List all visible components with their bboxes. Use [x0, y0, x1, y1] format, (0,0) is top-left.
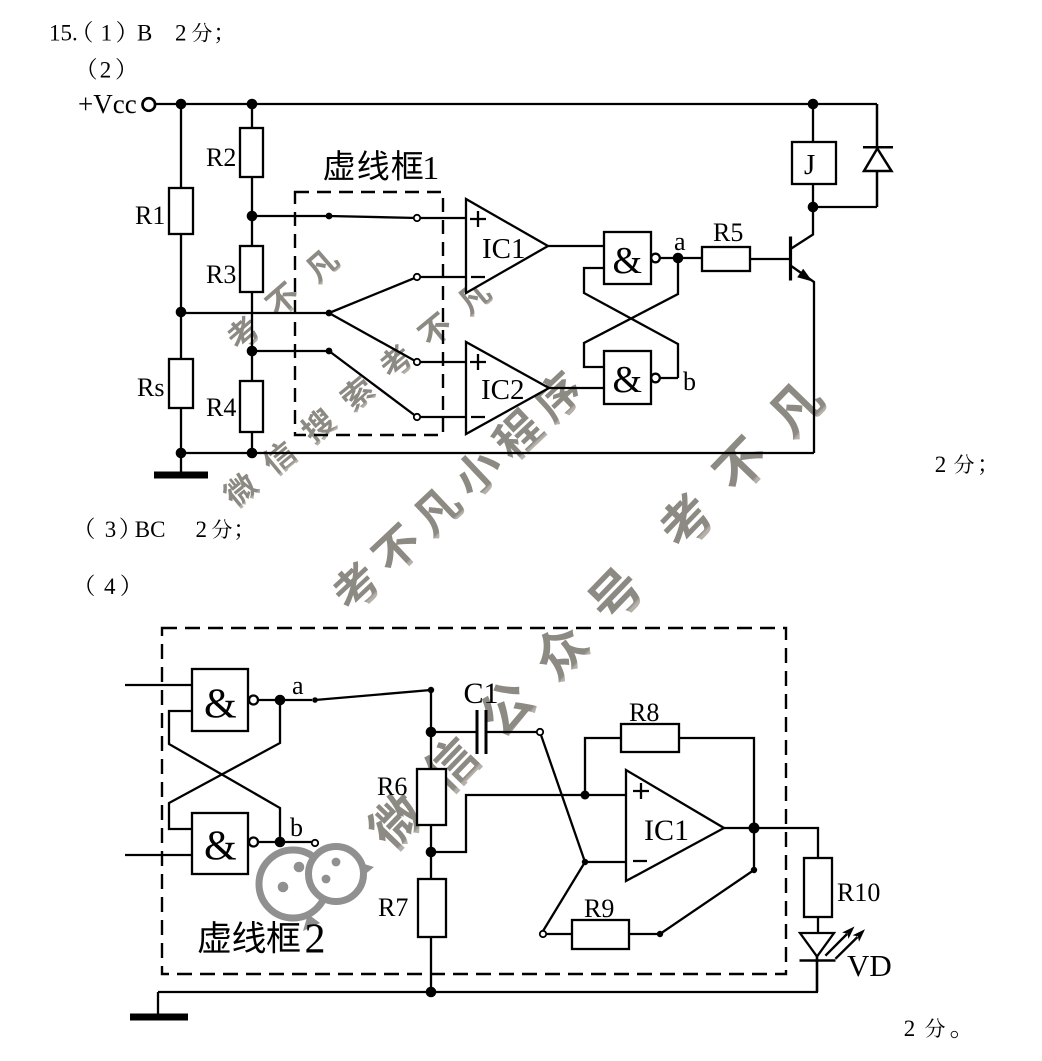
answer line (3): [87, 517, 240, 542]
wire bottom rail: [181, 452, 814, 454]
junction collector-relay: [808, 202, 819, 213]
junction node P: [247, 211, 258, 222]
resistor R10: [804, 858, 832, 917]
resistor Rs: [169, 359, 193, 408]
svg-text:&: &: [613, 240, 643, 282]
wire R1 to node M: [180, 234, 182, 312]
ground bar 2: [130, 1014, 188, 1021]
terminal R9 left open: [540, 931, 546, 937]
junction node Q: [247, 346, 258, 357]
wire R4 to bottom rail: [251, 432, 253, 453]
wire top rail: [156, 103, 877, 105]
svg-text:R8: R8: [629, 698, 659, 727]
svg-text:4: 4: [104, 574, 116, 599]
resistor R1: [169, 188, 193, 234]
svg-text:&: &: [204, 682, 237, 728]
wire node Q to IC2 minus: [252, 351, 466, 417]
junction minus node: [582, 859, 588, 865]
svg-text:3: 3: [105, 517, 117, 542]
svg-text:&: &: [204, 824, 237, 870]
svg-text:R2: R2: [206, 143, 236, 172]
nand gate GB: [192, 813, 248, 874]
op-amp IC1 lower: [626, 770, 724, 881]
wire left branch to R1: [180, 104, 182, 188]
answer line (2): [90, 58, 123, 83]
relay J: [792, 142, 836, 184]
junction node N: [426, 847, 437, 858]
svg-text:2: 2: [175, 21, 187, 46]
wire relay to node: [812, 184, 814, 207]
junction rail-relay: [808, 99, 819, 110]
wire node P to IC1 plus: [252, 216, 466, 218]
label dashed box 1: [324, 150, 439, 187]
pin circle IC1 minus: [414, 274, 420, 280]
wire cross b to GA input: [169, 711, 280, 842]
junction plus node: [581, 791, 590, 800]
score text 2 fen bottom: [904, 1016, 958, 1041]
junction output lower: [751, 867, 757, 873]
terminal dot M: [326, 310, 333, 317]
wire IC1 out: [548, 245, 604, 247]
terminal dot Q: [326, 348, 333, 355]
score text 2 fen top: [935, 452, 984, 477]
answer line (1): [49, 21, 220, 46]
pin circle IC2 minus: [414, 414, 420, 420]
svg-text:R5: R5: [713, 218, 743, 247]
wire C1 to minus node diagonal: [541, 735, 626, 862]
dashed box 1: [295, 192, 443, 435]
junction bottom-left: [176, 448, 187, 459]
svg-text:a: a: [292, 671, 304, 700]
svg-text:2: 2: [196, 517, 208, 542]
wire node N to plus input: [431, 795, 626, 852]
resistor R4: [240, 381, 263, 432]
svg-text:R7: R7: [378, 893, 408, 922]
resistor R7: [418, 879, 446, 937]
wire mid terminal to IC2 plus: [329, 313, 466, 362]
junction rail-R1: [176, 99, 187, 110]
svg-text:R1: R1: [135, 201, 165, 230]
svg-text:&: &: [613, 359, 643, 401]
terminal dot P: [326, 213, 333, 220]
wire output to R9 diagonal: [629, 828, 754, 934]
wire GB out to node b: [258, 841, 312, 843]
resistor R3: [240, 246, 263, 292]
terminal a2: [312, 697, 318, 703]
capacitor C1: [431, 731, 537, 733]
junction b2: [275, 837, 286, 848]
Vcc terminal: [143, 98, 156, 111]
wire Rs to bottom rail: [180, 408, 182, 453]
svg-text:BC: BC: [135, 517, 166, 542]
svg-text:IC2: IC2: [481, 374, 525, 406]
svg-text:2: 2: [100, 58, 112, 83]
wire GA out to node a: [258, 699, 312, 701]
wire node M to mid terminal: [181, 312, 329, 314]
junction bottom-R4: [247, 448, 258, 459]
terminal C1 right open: [537, 729, 543, 735]
wire output to R10: [724, 828, 818, 858]
wire cross b to G1 input: [584, 268, 678, 378]
op-amp IC1: [466, 199, 548, 293]
wire a to C1 node diagonal: [315, 690, 431, 732]
ground lead: [180, 453, 182, 472]
svg-text:b: b: [290, 813, 303, 842]
svg-text:2: 2: [305, 917, 326, 963]
svg-text:1: 1: [422, 150, 439, 187]
svg-text:VD: VD: [847, 948, 892, 983]
terminal b2 open: [312, 840, 318, 846]
pin circle IC1 plus: [414, 215, 420, 221]
junction bottom R7: [426, 987, 437, 998]
wire G2 out to b: [660, 377, 678, 379]
wire R9 left to minus node: [543, 862, 585, 934]
wire R3 to node Q: [251, 292, 253, 381]
resistor R2: [240, 128, 263, 177]
label dashed box 2: [198, 917, 325, 963]
wire rail to R2: [251, 104, 253, 128]
wire plus node to R8: [585, 738, 621, 795]
junction R9 right: [657, 931, 663, 937]
wire cross a to G2 input: [584, 258, 678, 367]
wire R10 to LED: [817, 917, 819, 933]
watermark text weixin sousuo kaobufan: [219, 276, 496, 511]
junction C1 top: [428, 687, 434, 693]
watermark text kaobufan 1: [222, 244, 343, 355]
svg-text:R6: R6: [377, 772, 407, 801]
answer line (4): [87, 574, 127, 599]
ground bar: [154, 472, 208, 479]
svg-text:J: J: [804, 149, 815, 181]
svg-text:R10: R10: [837, 878, 880, 907]
junction rail-R2: [247, 99, 258, 110]
nand gate G2: [604, 351, 651, 404]
svg-text:R9: R9: [584, 894, 614, 923]
wire IC2 out: [549, 387, 604, 389]
svg-text:IC1: IC1: [644, 814, 689, 847]
pin circle IC2 plus: [414, 359, 420, 365]
wire input 2: [125, 854, 192, 856]
wire G1 out to node a: [660, 257, 702, 259]
svg-text:C1: C1: [464, 677, 499, 710]
svg-text:+Vcc: +Vcc: [78, 89, 137, 119]
led arrows: [825, 934, 857, 959]
svg-text:R4: R4: [206, 393, 236, 422]
wire mid terminal to IC1 minus: [329, 277, 466, 313]
svg-text:Rs: Rs: [137, 373, 164, 402]
svg-text:1: 1: [101, 21, 113, 46]
svg-text:B: B: [137, 21, 152, 46]
svg-text:R3: R3: [206, 260, 236, 289]
wire collector node to diode: [813, 206, 877, 208]
diode D1: [863, 104, 893, 207]
wire input 1: [125, 684, 192, 686]
resistor R9: [572, 920, 629, 949]
junction node a: [673, 253, 684, 264]
led VD: [800, 933, 834, 957]
wire R8 to output: [679, 738, 754, 828]
svg-text:2: 2: [935, 452, 947, 477]
nand gate G1: [604, 232, 651, 284]
wire R2 to node P: [251, 177, 253, 216]
resistor R5: [702, 247, 750, 271]
op-amp IC2: [466, 342, 549, 434]
wire node M to Rs: [180, 312, 182, 359]
wire R5 to base: [750, 258, 790, 260]
junction a2: [275, 695, 286, 706]
svg-text:2: 2: [904, 1016, 916, 1041]
watermark text weixin gongzhonghao kaobufan: [361, 373, 831, 857]
wire R6 to node N: [430, 825, 432, 879]
nand gate GA: [192, 669, 248, 731]
wire R7 to bottom rail: [430, 937, 432, 992]
svg-text:a: a: [674, 227, 686, 256]
svg-text:15.: 15.: [49, 21, 78, 46]
junction output: [749, 823, 760, 834]
watermark text kaobufan xiaochengxu: [325, 366, 588, 617]
svg-text:IC1: IC1: [482, 233, 526, 265]
wire bottom rail 2: [158, 991, 818, 993]
wire rail to relay: [812, 104, 814, 142]
wire node P to R3: [251, 216, 253, 246]
junction node M: [176, 307, 187, 318]
ground lead 2: [157, 992, 159, 1014]
wire cross a to GB input: [169, 700, 280, 829]
dashed box 2: [162, 628, 786, 974]
svg-text:b: b: [683, 367, 696, 396]
resistor R6: [417, 769, 446, 825]
junction C1 node: [426, 727, 437, 738]
resistor R8: [621, 724, 679, 752]
watermark wechat logo: [259, 847, 374, 932]
wire C1 node to R6: [430, 732, 432, 769]
transistor Q1: [789, 237, 792, 281]
